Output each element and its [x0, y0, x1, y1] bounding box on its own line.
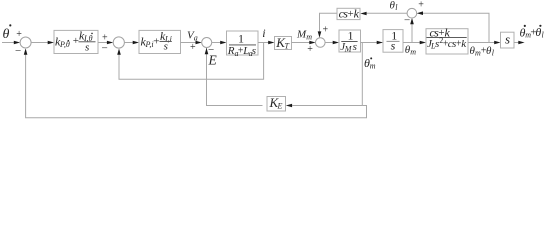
arrowhead into PI-velocity block	[48, 41, 54, 45]
arrowhead into S3	[196, 41, 202, 45]
wire s block to output	[514, 42, 521, 44]
block KT torque constant	[275, 35, 292, 51]
arrowhead into S1	[14, 41, 20, 45]
summing junction S1	[20, 37, 31, 48]
node thetadot_m label	[364, 56, 376, 71]
block integrator 1/s	[383, 28, 403, 52]
svg-text:m: m	[306, 32, 312, 41]
svg-text:s: s	[252, 45, 256, 57]
block KE back-EMF constant	[267, 95, 286, 111]
block differentiator s	[501, 32, 515, 48]
arrowhead left into KE	[286, 104, 292, 108]
svg-text:k: k	[354, 7, 360, 21]
node thetadot_m branch wire down	[361, 43, 363, 106]
svg-text:T: T	[285, 42, 290, 51]
wire PI-current to S3	[181, 42, 198, 44]
block PI velocity controller kP,thetadot + kI,thetadot/s	[54, 29, 98, 54]
svg-text:−: −	[102, 43, 108, 55]
svg-text:θ: θ	[3, 27, 10, 42]
arrowhead into PI-current block	[133, 41, 139, 45]
arrowhead into rotor block	[333, 41, 339, 45]
svg-text:i: i	[262, 26, 265, 40]
svg-text:+: +	[190, 42, 196, 53]
svg-text:θ: θ	[535, 25, 541, 39]
wire S1 to block PI-velocity	[31, 42, 49, 44]
wire S4 to rotor block	[325, 42, 334, 44]
wire from thetadot_m branch to KE	[292, 105, 362, 107]
node theta_m + theta_l label	[470, 45, 495, 58]
arrowhead into KT	[268, 41, 274, 45]
node Va label	[187, 30, 198, 43]
wire rotor block to 1/s block	[361, 42, 379, 44]
svg-text:s: s	[164, 41, 168, 53]
summing junction S2	[113, 37, 124, 48]
block load dynamics (cs+k)/(JL s^2+cs+k)	[426, 25, 468, 54]
svg-text:s: s	[85, 42, 89, 54]
svg-text:+: +	[307, 44, 313, 55]
svg-text:−: −	[15, 45, 21, 57]
svg-text:m: m	[370, 62, 376, 71]
svg-text:E: E	[208, 52, 218, 67]
summing junction S3	[202, 38, 212, 48]
arrowhead into S4	[309, 41, 315, 45]
wire S2 to block PI-current	[124, 42, 134, 44]
arrowhead into s block	[494, 41, 500, 45]
node output label thetadot_m + thetadot_l	[520, 25, 545, 40]
arrowhead into load block	[420, 41, 426, 45]
arrowhead into motor electrical block	[220, 41, 226, 45]
svg-text:+: +	[418, 0, 424, 11]
wire cs+k output down into S4	[320, 13, 338, 33]
node theta_m label	[405, 44, 417, 57]
svg-text:M: M	[344, 45, 353, 54]
arrowhead up into S2 bottom	[117, 49, 121, 55]
arrowhead left into S5 right side	[417, 11, 423, 15]
wire S3 to motor electrical block	[212, 42, 222, 44]
block motor electrical 1/(Ra+La s)	[227, 31, 259, 58]
arrowhead up into S5 bottom	[410, 18, 414, 24]
summing junction S5	[407, 8, 417, 18]
svg-text:1: 1	[238, 31, 244, 45]
wire KT to S4	[292, 42, 312, 44]
wire PI-velocity to S2	[98, 42, 109, 44]
arrowhead up into S3 bottom	[205, 48, 209, 54]
node theta_l label	[390, 0, 399, 12]
svg-text:P,i: P,i	[145, 40, 154, 49]
arrowhead left into cs+k block	[360, 12, 366, 16]
svg-text:s: s	[353, 41, 357, 53]
wire back-EMF feedback: S3 down then right to KE	[207, 48, 263, 106]
node thetadot reference input label	[3, 24, 12, 42]
wire current feedback: branch down, left, up into S2	[119, 43, 264, 80]
wire theta_m branch up to S5	[411, 22, 413, 43]
block cs+k top feedback	[337, 7, 360, 21]
block rotor inertia 1/(JM s)	[339, 28, 361, 53]
arrowhead output	[518, 41, 524, 45]
svg-text:+: +	[323, 24, 329, 35]
summing junction S4	[316, 38, 326, 48]
arrowhead up into S1 bottom	[24, 48, 28, 54]
wire S5 right input from branch	[421, 13, 489, 42]
block PI current controller kP,i + kI,i/s	[139, 29, 181, 54]
svg-text:s: s	[505, 32, 510, 47]
arrowhead into 1/s block	[377, 41, 383, 45]
arrowhead into S2	[107, 41, 113, 45]
svg-text:m: m	[410, 47, 416, 56]
node Mm label	[296, 29, 312, 42]
arrowhead down into S4 top	[318, 31, 322, 37]
wire 1/s to load block	[403, 42, 422, 44]
wire load block to s block	[468, 42, 496, 44]
svg-text:+: +	[153, 35, 159, 47]
wire motor electrical to KT	[258, 42, 270, 44]
svg-text:s: s	[391, 39, 396, 53]
svg-text:E: E	[277, 102, 283, 111]
wire input to summing junction S1	[2, 42, 15, 44]
wire S5 output left to cs+k block	[366, 12, 407, 14]
wire outer velocity feedback	[26, 53, 367, 118]
